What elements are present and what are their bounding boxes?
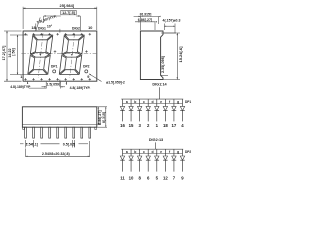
svg-text:DP2: DP2 <box>83 65 90 69</box>
svg-text:e: e <box>160 150 162 154</box>
svg-text:25[.984]: 25[.984] <box>60 3 75 8</box>
svg-text:DIG1: DIG1 <box>38 27 46 31</box>
svg-text:b: b <box>134 150 136 154</box>
svg-text:DIG2:13: DIG2:13 <box>149 138 163 142</box>
svg-text:1: 1 <box>20 75 22 79</box>
svg-text:9: 9 <box>87 75 89 79</box>
svg-text:g: g <box>177 100 179 104</box>
svg-text:6.86[.27]: 6.86[.27] <box>138 18 152 22</box>
svg-text:8[.315]: 8[.315] <box>102 112 106 123</box>
svg-text:c: c <box>143 100 145 104</box>
svg-text:[.56]: [.56] <box>12 47 16 55</box>
svg-text:e: e <box>160 100 162 104</box>
svg-text:1.5(.059): 1.5(.059) <box>47 82 61 86</box>
svg-text:8[.315]: 8[.315] <box>140 12 152 16</box>
svg-text:4.8(.189)TYP.: 4.8(.189)TYP. <box>70 86 91 90</box>
svg-text:DIG1:14: DIG1:14 <box>152 82 167 86</box>
svg-text:2.54X8=20.32(.8): 2.54X8=20.32(.8) <box>42 152 71 156</box>
svg-text:4(.157)±0.3: 4(.157)±0.3 <box>163 19 181 23</box>
svg-text:10: 10 <box>88 26 92 30</box>
svg-text:0.5[.02]: 0.5[.02] <box>63 143 75 147</box>
svg-text:17.2[.67]: 17.2[.67] <box>2 45 6 61</box>
svg-text:2.35[.098]: 2.35[.098] <box>161 55 165 73</box>
svg-text:⌀1.5[.059]-2: ⌀1.5[.059]-2 <box>106 80 125 84</box>
svg-text:b: b <box>134 100 136 104</box>
svg-text:17: 17 <box>172 123 177 128</box>
svg-text:c: c <box>143 150 145 154</box>
svg-text:12.7[.5]: 12.7[.5] <box>62 11 75 15</box>
svg-text:10°: 10° <box>47 24 53 28</box>
svg-text:DP1: DP1 <box>51 65 58 69</box>
svg-text:16: 16 <box>120 123 125 128</box>
svg-text:a: a <box>126 100 128 104</box>
svg-text:11: 11 <box>120 175 125 180</box>
svg-text:15.24[.6]: 15.24[.6] <box>178 46 183 63</box>
svg-text:2.54[.1]: 2.54[.1] <box>26 143 38 147</box>
svg-text:d: d <box>151 150 153 154</box>
svg-text:4.8(.189)TYP: 4.8(.189)TYP <box>10 85 31 89</box>
svg-text:18: 18 <box>163 123 168 128</box>
svg-text:g: g <box>177 150 179 154</box>
svg-text:18: 18 <box>31 26 35 30</box>
svg-text:d: d <box>151 100 153 104</box>
svg-text:DIG2: DIG2 <box>72 27 80 31</box>
svg-text:15: 15 <box>129 123 134 128</box>
svg-text:12: 12 <box>163 175 168 180</box>
svg-text:DP1: DP1 <box>185 100 191 104</box>
svg-text:DP2: DP2 <box>185 150 191 154</box>
svg-text:a: a <box>126 150 128 154</box>
svg-text:10: 10 <box>129 175 134 180</box>
